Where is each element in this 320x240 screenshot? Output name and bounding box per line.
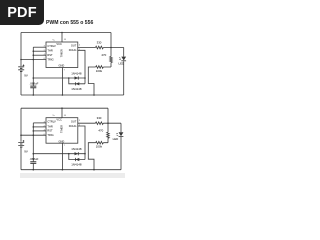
svg-text:1N4148: 1N4148	[71, 72, 82, 76]
svg-text:RST: RST	[47, 129, 53, 133]
svg-text:TIMER: TIMER	[59, 49, 63, 57]
IC U2 pin numbers	[44, 115, 81, 147]
capacitor C2 .068uF	[29, 157, 38, 163]
wire pot branch circuit 1	[88, 67, 111, 95]
wire VCC drop circuit 2	[107, 108, 109, 143]
svg-text:470: 470	[98, 129, 103, 133]
wire OUT pin 5 circuit 1	[78, 47, 124, 49]
junction pot bottom rail circuit 2	[93, 169, 95, 171]
svg-text:1N4148: 1N4148	[71, 163, 82, 167]
junction V+ on top rail circuit 1	[61, 32, 63, 34]
wire top rail circuit 2	[21, 107, 108, 109]
svg-text:VCC: VCC	[56, 118, 62, 122]
svg-text:7: 7	[64, 145, 66, 147]
svg-text:1N4148: 1N4148	[71, 87, 82, 91]
junction TRIG bus circuit 1	[33, 59, 35, 61]
junction diode right circuit 1	[84, 77, 86, 79]
svg-text:5: 5	[79, 44, 81, 46]
svg-text:.068uF: .068uF	[29, 81, 38, 85]
wire V+ stub circuit 2	[61, 108, 63, 118]
wire THR pin 2 circuit 2	[33, 126, 46, 128]
junction cap bus diode wire circuit 1	[33, 77, 35, 79]
wire DCHG pin 1 circuit 1	[78, 50, 85, 78]
wire VCC drop circuit 1	[110, 33, 112, 68]
wire GND stub circuit 2	[61, 143, 63, 170]
svg-text:100k: 100k	[96, 69, 103, 73]
junction diode left circuit 2	[68, 153, 70, 155]
junction cap bus diode wire circuit 2	[33, 153, 35, 155]
svg-text:100k: 100k	[96, 145, 103, 149]
LED2	[113, 123, 124, 170]
wire cap to diodes circuit 1	[33, 77, 69, 79]
junction RST bus circuit 1	[33, 54, 35, 56]
svg-text:DCHG: DCHG	[69, 124, 77, 128]
wire capacitor to ground circuit 2	[32, 163, 34, 169]
wire OUT pin 5 circuit 2	[78, 122, 121, 124]
svg-text:THR: THR	[47, 124, 52, 128]
wire DCHG pin 1 circuit 2	[78, 126, 85, 154]
svg-text:GND: GND	[59, 64, 65, 68]
wire bottom rail circuit 1	[21, 94, 124, 96]
document title	[46, 20, 93, 26]
footer caption placeholder bar	[20, 173, 125, 178]
junction V+ on top rail circuit 2	[61, 107, 63, 109]
svg-text:THR: THR	[47, 49, 52, 53]
wire GND stub circuit 1	[61, 68, 63, 96]
svg-text:LED: LED	[113, 137, 119, 141]
wire pin bus circuit 1	[32, 47, 34, 86]
svg-text:V+: V+	[52, 115, 55, 117]
wire RST pin 4 circuit 1	[33, 54, 46, 56]
svg-text:.068uF: .068uF	[29, 157, 38, 161]
svg-text:LED: LED	[119, 61, 125, 65]
junction OUT crossing circuit 2	[107, 122, 109, 124]
svg-text:1N4148: 1N4148	[71, 147, 82, 151]
svg-text:TRIG: TRIG	[47, 57, 53, 61]
wire V+ stub circuit 1	[61, 33, 63, 43]
resistor R2b 470	[98, 129, 109, 139]
svg-text:DCHG: DCHG	[69, 48, 77, 52]
svg-text:CTRLV: CTRLV	[47, 44, 56, 48]
svg-text:9V: 9V	[24, 74, 28, 78]
svg-text:TRIG: TRIG	[47, 133, 53, 137]
junction GND on bottom rail circuit 1	[62, 94, 64, 96]
svg-text:9V: 9V	[24, 149, 28, 153]
svg-text:TIMER: TIMER	[59, 125, 63, 133]
PDF badge	[0, 0, 44, 25]
wire cap to diodes circuit 2	[33, 153, 69, 155]
resistor R1a 330	[96, 40, 104, 48]
wire CTRLV pin 3 circuit 2	[33, 122, 46, 124]
wire left rail circuit 1	[20, 33, 22, 96]
capacitor C1 .068uF	[29, 81, 38, 87]
resistor R2a 330	[96, 116, 104, 124]
IC U2 556 timer box	[46, 118, 78, 144]
junction TRIG bus circuit 2	[33, 134, 35, 136]
diode D2a 1N4148	[71, 147, 82, 155]
junction THR bus circuit 2	[33, 126, 35, 128]
svg-text:V+: V+	[52, 39, 55, 41]
wire diode branch A circuit 1	[69, 77, 85, 79]
IC U1 pin numbers	[44, 39, 81, 71]
junction THR bus circuit 1	[33, 50, 35, 52]
resistor R1c 100k	[96, 66, 104, 73]
svg-text:VCC: VCC	[56, 42, 62, 46]
wire pot branch circuit 2	[88, 143, 108, 170]
diode D1b 1N4148	[71, 82, 82, 91]
junction capacitor bottom rail circuit 2	[33, 169, 35, 171]
junction diode left circuit 1	[68, 77, 70, 79]
wire diode branch B circuit 2	[69, 154, 85, 160]
wire TRIG pin 6 circuit 1	[21, 59, 46, 61]
resistor R1b 470	[101, 53, 112, 63]
svg-text:RST: RST	[47, 53, 53, 57]
battery B1 9V	[18, 64, 28, 77]
LED1	[119, 48, 127, 96]
wire CTRLV pin 3 circuit 1	[33, 46, 46, 48]
battery B2 9V	[18, 140, 28, 153]
svg-text:OUT: OUT	[71, 44, 77, 48]
resistor R2c 100k	[96, 141, 104, 148]
wire TRIG pin 6 circuit 2	[21, 134, 46, 136]
junction diode right circuit 2	[84, 153, 86, 155]
svg-text:7: 7	[64, 70, 66, 72]
wire THR pin 2 circuit 1	[33, 50, 46, 52]
junction pot bottom rail circuit 1	[93, 94, 95, 96]
wire pin bus circuit 2	[32, 123, 34, 162]
junction TRIG left rail circuit 2	[20, 134, 22, 136]
IC U1 pin labels	[47, 42, 76, 68]
wire capacitor to ground circuit 1	[32, 88, 34, 95]
svg-text:5: 5	[79, 120, 81, 122]
svg-text:OUT: OUT	[71, 119, 77, 123]
svg-text:470: 470	[101, 53, 106, 57]
wire diode branch B circuit 1	[69, 78, 85, 84]
junction capacitor bottom rail circuit 1	[33, 94, 35, 96]
wire top rail circuit 1	[21, 32, 111, 34]
junction TRIG left rail circuit 1	[20, 59, 22, 61]
svg-text:14: 14	[64, 39, 67, 41]
junction GND on bottom rail circuit 2	[62, 169, 64, 171]
wire left rail circuit 2	[20, 108, 22, 170]
svg-text:14: 14	[64, 115, 67, 117]
wire RST pin 4 circuit 2	[33, 130, 46, 132]
junction RST bus circuit 2	[33, 130, 35, 132]
IC U2 pin labels	[47, 118, 76, 144]
wire diode branch A circuit 2	[69, 153, 85, 155]
IC U1 556 timer box	[46, 42, 78, 68]
svg-text:330: 330	[97, 40, 102, 44]
diode D2b 1N4148	[71, 158, 82, 167]
svg-text:330: 330	[97, 116, 102, 120]
svg-text:CTRLV: CTRLV	[47, 120, 56, 124]
svg-text:GND: GND	[59, 139, 65, 143]
junction OUT crossing circuit 1	[110, 47, 112, 49]
wire bottom rail circuit 2	[21, 169, 121, 171]
diode D1a 1N4148	[71, 72, 82, 80]
